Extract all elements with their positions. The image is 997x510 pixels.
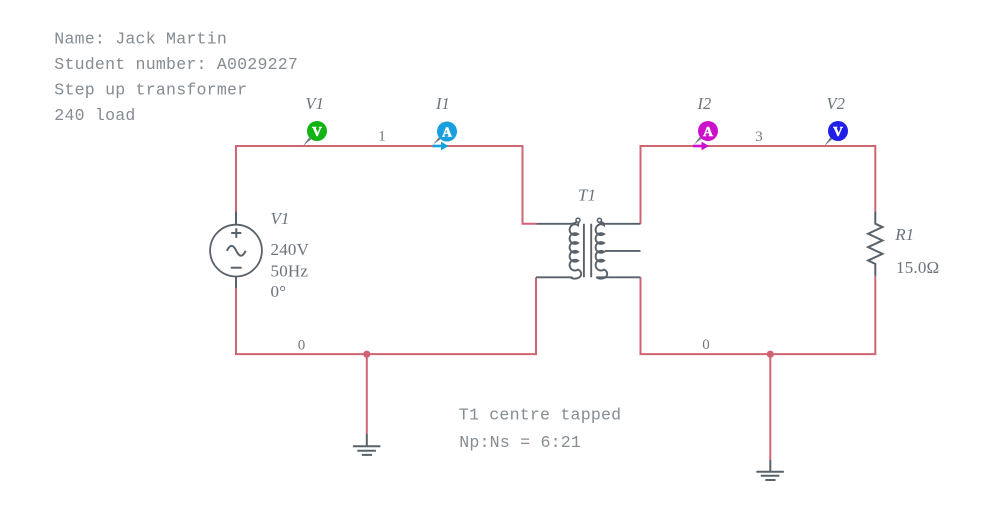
wire net 1: source top to transformer primary top [236,146,537,224]
secondary centre tap lead [605,250,641,252]
svg-text:240 load: 240 load [54,106,135,125]
svg-text:Student number: A0029227: Student number: A0029227 [54,55,298,74]
wire ground stem right [769,354,771,460]
current probe I2 [693,121,718,150]
junction node 0 left [363,351,370,358]
svg-text:0: 0 [702,337,710,353]
svg-text:A: A [703,124,713,139]
svg-text:I2: I2 [697,94,712,113]
svg-text:1: 1 [378,129,386,145]
svg-text:Name: Jack Martin: Name: Jack Martin [54,29,227,48]
svg-text:T1 centre tapped: T1 centre tapped [459,406,622,425]
svg-text:240V: 240V [271,240,310,259]
secondary top lead [599,221,640,224]
svg-text:V2: V2 [827,94,845,113]
svg-text:V1: V1 [306,94,324,113]
primary winding [570,222,582,279]
junction node 0 right [767,351,774,358]
transformer T1 [536,221,641,279]
primary top lead [537,221,578,224]
svg-text:R1: R1 [894,225,914,244]
wire ground stem left [366,354,368,434]
ground right [756,460,784,480]
svg-text:A: A [442,125,452,140]
wire net 0 left: source bottom, ground stem, transformer primary bottom [236,277,536,354]
svg-text:Np:Ns = 6:21: Np:Ns = 6:21 [459,433,581,452]
svg-text:Step up transformer: Step up transformer [54,80,247,99]
svg-text:15.0Ω: 15.0Ω [896,258,939,277]
voltage probe V1 [303,121,327,146]
svg-text:V: V [833,124,843,139]
svg-text:V1: V1 [271,209,290,228]
resistor R1 [868,211,882,275]
annotation text block bottom-centre [459,406,622,453]
AC voltage source V1 [210,212,262,289]
svg-text:3: 3 [755,129,763,145]
secondary phase dot [597,218,601,222]
current probe I1 [433,122,458,151]
secondary bottom lead [597,276,641,278]
svg-text:50Hz: 50Hz [271,262,309,281]
primary bottom lead [536,276,573,278]
secondary winding [596,222,608,279]
svg-text:0: 0 [298,338,306,354]
wire net 0 right: resistor bottom, ground stem, secondary bottom [641,276,876,354]
annotation text block top-left [54,29,298,125]
core lines [584,224,591,277]
svg-text:T1: T1 [578,186,596,205]
primary phase dot [576,218,580,222]
svg-text:V: V [312,124,322,139]
voltage probe V2 [824,121,848,146]
wire net 3: transformer secondary top to resistor top [641,146,876,224]
svg-text:I1: I1 [435,94,450,113]
ground left [353,434,381,455]
svg-text:0°: 0° [271,282,287,301]
